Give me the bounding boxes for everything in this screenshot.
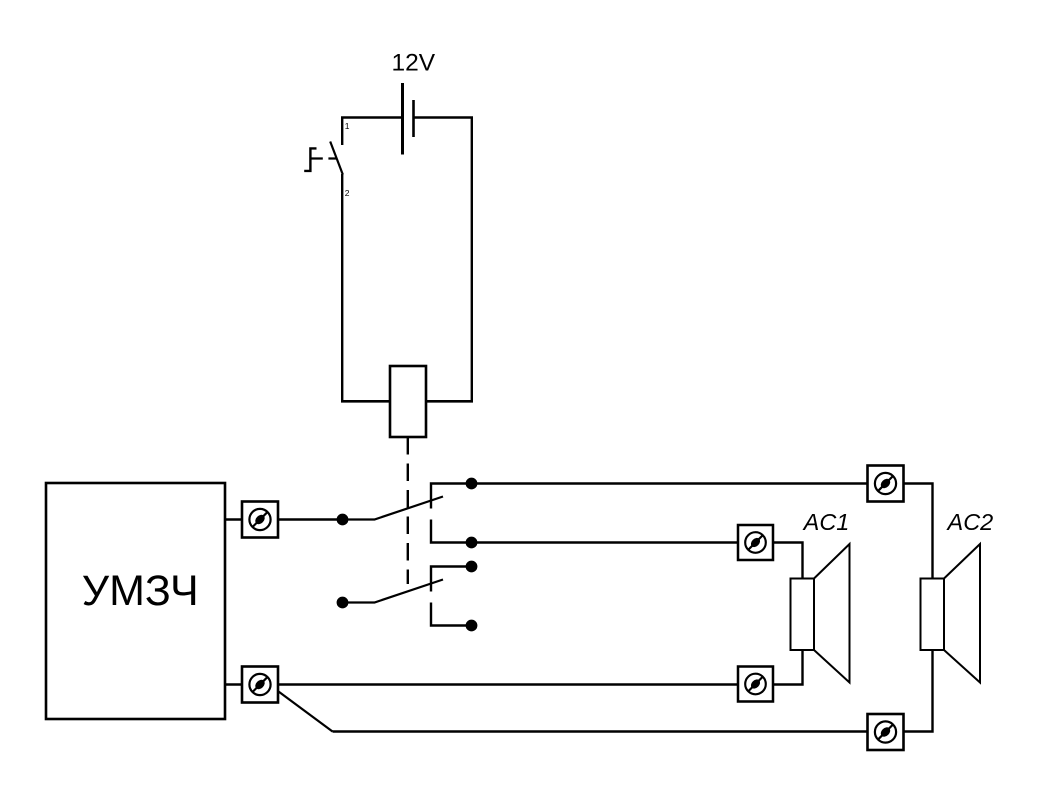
relay coil K1: [390, 366, 426, 437]
relay K1 mechanical link (dashed): [407, 437, 409, 584]
wire top right (battery to right branch): [414, 116, 474, 119]
connector X6: [868, 714, 904, 750]
node K1.2 upper: [466, 561, 478, 573]
svg-text:12V: 12V: [392, 49, 436, 76]
switch SB1 actuator link: [311, 157, 337, 159]
wire X6 to speaker AC2 minus: [904, 650, 933, 732]
wire X5 to speaker AC2 plus: [904, 484, 933, 579]
svg-text:AC2: AC2: [946, 509, 994, 535]
wire loop bottom left: [341, 400, 390, 403]
speaker AC2 horn: [944, 544, 980, 683]
connector X1: [242, 502, 278, 538]
battery GB1 short plate: [412, 100, 415, 137]
connector X4: [738, 667, 773, 702]
wire left vertical upper (to switch): [341, 118, 343, 146]
wire diagonal from X2 corner: [279, 692, 333, 732]
wire X1 to relay contact common: [278, 518, 342, 521]
relay contact K1.2 blade: [343, 580, 444, 603]
wire X4 to speaker AC1 minus: [773, 650, 803, 685]
relay contact K1.1 blade: [343, 497, 444, 520]
wire X2 to X4: [278, 683, 738, 686]
contact K1.1 upper throw: [431, 484, 472, 509]
svg-text:1: 1: [345, 121, 350, 131]
wire top left (battery to left branch): [341, 116, 402, 119]
node K1.1 common: [337, 514, 349, 526]
speaker AC1 frame: [791, 579, 815, 651]
contact K1.2 lower throw: [431, 603, 472, 626]
battery GB1 long plate: [401, 83, 404, 155]
node K1.1 lower: [466, 537, 478, 549]
speaker AC2 frame: [921, 579, 945, 651]
wire amp bottom output to X2: [225, 683, 242, 686]
svg-text:AC1: AC1: [802, 509, 850, 535]
node K1.1 upper: [466, 478, 478, 490]
wire X3 to speaker AC1 plus: [773, 543, 803, 579]
contact K1.2 upper throw: [431, 567, 472, 592]
wire loop bottom right: [426, 400, 473, 403]
wire bottom long: [333, 730, 868, 733]
contact K1.1 lower throw: [431, 520, 472, 543]
connector X2: [242, 667, 278, 703]
connector X5: [868, 466, 904, 502]
switch SB1 blade: [330, 142, 343, 175]
wire right vertical of loop: [471, 118, 473, 403]
switch SB1 pushbutton bracket: [304, 148, 316, 171]
wire NO contact to X5 (top long wire): [472, 482, 868, 485]
wire left vertical lower: [341, 174, 343, 403]
wire amp top output to X1: [225, 518, 242, 521]
amplifier block УМЗЧ: [46, 483, 225, 719]
wire NC contact to X3: [472, 541, 739, 544]
speaker AC1 horn: [814, 544, 850, 683]
node K1.2 lower: [466, 620, 478, 632]
node K1.2 common: [337, 597, 349, 609]
connector X3: [738, 525, 773, 560]
svg-text:2: 2: [345, 188, 350, 198]
svg-text:УМЗЧ: УМЗЧ: [82, 567, 199, 615]
